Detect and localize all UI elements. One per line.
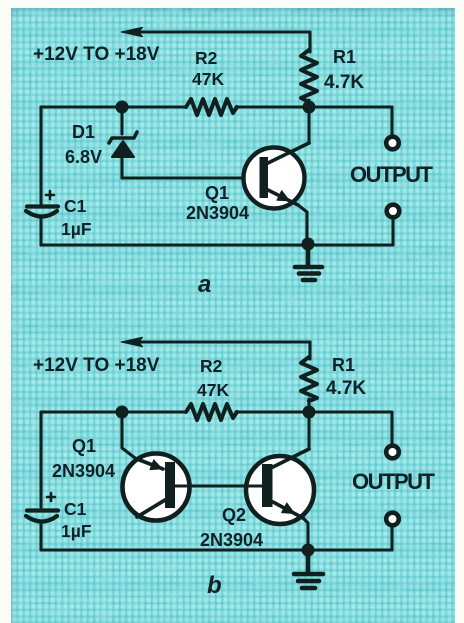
svg-text:C1: C1	[64, 499, 87, 519]
capacitor C1 1uF circuit a plus sign	[46, 191, 54, 199]
svg-text:R1: R1	[333, 47, 356, 67]
svg-text:1µF: 1µF	[61, 219, 92, 239]
wire emitter Q1a to ground rail	[298, 205, 307, 245]
svg-text:4.7K: 4.7K	[326, 378, 366, 399]
svg-text:R2: R2	[200, 356, 223, 376]
ground symbol circuit a	[295, 245, 322, 280]
svg-text:Q1: Q1	[205, 183, 229, 203]
svg-text:a: a	[198, 271, 211, 298]
wire base link Q1b to Q2b	[175, 484, 262, 487]
wire top rail b	[41, 410, 186, 413]
svg-text:2N3904: 2N3904	[186, 203, 249, 223]
svg-text:R1: R1	[332, 355, 355, 375]
wire R1b top lead	[308, 342, 311, 359]
transistor Q1 2N3904 circuit a	[244, 143, 310, 209]
wire supply arrow line circuit a	[141, 30, 310, 33]
wire rail R2 to junction b	[236, 410, 309, 413]
svg-text:2N3904: 2N3904	[200, 530, 263, 550]
svg-text:+12V TO +18V: +12V TO +18V	[33, 355, 160, 376]
wire emitter lead Q1b from rail	[122, 412, 139, 461]
transistor Q1 2N3904 circuit b (mirrored)	[123, 454, 190, 521]
ground symbol circuit b	[294, 550, 323, 588]
terminal output upper circuit b	[386, 446, 399, 459]
svg-text:Q1: Q1	[72, 436, 96, 456]
resistor R2 (47K) circuit a	[186, 99, 237, 115]
node ground junction a	[302, 238, 315, 251]
node junction R1/R2/collector/output a	[303, 101, 316, 114]
wire bottom rail a	[41, 243, 393, 246]
wire C1b bottom lead	[39, 523, 42, 550]
resistor R1 (4.7K) circuit a	[301, 50, 317, 102]
node rail/zener junction a	[116, 101, 129, 114]
terminal output upper circuit a	[386, 137, 399, 150]
svg-text:b: b	[207, 572, 222, 599]
wire output lower lead a	[391, 219, 394, 245]
supply arrowhead a	[121, 27, 143, 37]
svg-text:R2: R2	[195, 48, 218, 68]
wire zener top lead	[120, 107, 123, 134]
svg-text:6.8V: 6.8V	[65, 147, 102, 167]
wire rail R2 to junction a	[236, 105, 309, 108]
wire output lower lead b	[390, 527, 393, 550]
svg-text:4.7K: 4.7K	[324, 72, 364, 93]
svg-text:2N3904: 2N3904	[52, 461, 115, 481]
wire R1a bottom lead	[307, 100, 310, 107]
resistor R2 (47K) circuit b	[186, 404, 237, 420]
svg-text:+12V TO +18V: +12V TO +18V	[33, 44, 160, 65]
svg-text:D1: D1	[72, 122, 95, 142]
zener diode D1 6.8V	[109, 132, 137, 157]
terminal output lower circuit a	[387, 205, 400, 218]
node rail/Q1b junction	[116, 406, 129, 419]
supply arrowhead b	[121, 337, 143, 347]
svg-text:47K: 47K	[192, 69, 224, 89]
transistor Q2 2N3904 circuit b	[246, 449, 314, 524]
svg-text:1µF: 1µF	[61, 521, 92, 541]
wire zener bottom lead	[120, 156, 123, 178]
svg-text:Q2: Q2	[222, 505, 246, 525]
wire bottom rail b	[41, 548, 392, 551]
capacitor C1 1uF circuit b plus sign	[47, 493, 55, 501]
wire R1b bottom lead	[307, 399, 310, 412]
wire collector Q2b to junction	[307, 412, 310, 449]
capacitor C1 circuit b plates	[26, 511, 58, 522]
terminal output lower circuit b	[386, 513, 399, 526]
wire collector Q1a to junction	[307, 107, 310, 143]
svg-text:OUTPUT: OUTPUT	[350, 162, 434, 187]
wire left branch b (rail to C1)	[39, 412, 42, 507]
wire R1a top lead	[308, 32, 311, 52]
wire C1a bottom lead	[39, 218, 42, 245]
wire supply arrow line circuit b	[141, 340, 310, 343]
node junction R1/R2/collector/output b	[303, 406, 316, 419]
wire zener to base Q1a	[122, 176, 260, 179]
wire output upper lead a	[309, 107, 392, 136]
node ground junction b	[302, 544, 315, 557]
wire top rail a (left corner to R2)	[41, 105, 186, 108]
wire output upper lead b	[309, 412, 392, 444]
svg-text:47K: 47K	[197, 380, 229, 400]
wire left branch a (rail to C1)	[39, 107, 42, 204]
svg-text:C1: C1	[64, 196, 87, 216]
resistor R1 (4.7K) circuit b	[301, 357, 317, 401]
capacitor C1 circuit a plates	[26, 207, 58, 217]
svg-text:OUTPUT: OUTPUT	[352, 469, 436, 494]
wire emitter Q2b to ground rail	[303, 518, 308, 550]
